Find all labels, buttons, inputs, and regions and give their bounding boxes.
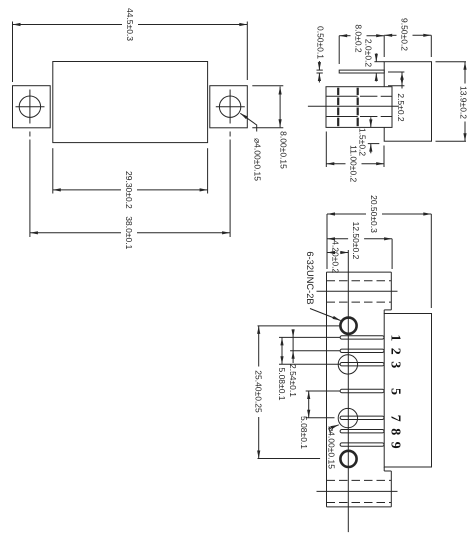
svg-text:9.50±0.2: 9.50±0.2 [400, 18, 410, 51]
dimension 5.08±0.1 pins 1-3 [281, 337, 283, 364]
dimension 4.20±0.2 edge to hole centerline [327, 252, 331, 254]
pin block horizontal centerline [308, 105, 398, 107]
top view: module body outline [53, 62, 208, 143]
label ∅4.00±0.15 ear hole with leader [240, 113, 256, 131]
svg-text:12.50±0.2: 12.50±0.2 [351, 222, 361, 260]
dimension 2.5±0.2 flange to pins [388, 71, 404, 73]
top ear hole centerline [317, 290, 398, 292]
dimension 8.00±0.15 ear height [252, 85, 283, 87]
bottom ear hole hidden lines [327, 479, 392, 481]
svg-text:6-32UNC-2B: 6-32UNC-2B [305, 251, 315, 304]
dimension 13.9±0.2 case height [436, 61, 467, 63]
dimension 2.54±0.1 pin pitch [292, 329, 294, 337]
pin 1 [340, 336, 384, 339]
svg-text:8: 8 [388, 428, 403, 435]
dimension 9.50±0.2 case width [430, 35, 432, 57]
threaded hole 6-32UNC-2B bottom [340, 451, 356, 467]
top view: right mounting ear [210, 86, 248, 128]
right hole crosshair centerlines [216, 106, 245, 108]
pin 9 [340, 443, 384, 446]
dimension 8.0±0.2 flange length [338, 36, 340, 64]
svg-text:1: 1 [388, 334, 403, 341]
bottom view: case outline [384, 314, 431, 468]
svg-text:5: 5 [388, 388, 403, 395]
svg-text:29.30±0.2: 29.30±0.2 [124, 171, 134, 209]
svg-text:7: 7 [388, 415, 403, 422]
svg-text:2: 2 [388, 348, 403, 355]
side view: case body outline [384, 62, 431, 142]
dimension 20.50±0.3 overall width [326, 214, 328, 269]
side view: mounting flange 0.5 thick [339, 70, 384, 73]
pin 7 [340, 416, 384, 419]
left ear mounting hole [19, 96, 40, 117]
top ear hole hidden lines [327, 280, 392, 282]
svg-text:⌀4.00±0.15: ⌀4.00±0.15 [253, 138, 263, 181]
label ∅4.00±0.15 plain hole with leader [329, 425, 339, 434]
dimension 25.40±0.25 threaded hole spacing [258, 325, 341, 327]
svg-text:2.0±0.2: 2.0±0.2 [364, 39, 374, 68]
right ear mounting hole [219, 96, 240, 117]
plain hole ∅4 lower [338, 408, 357, 427]
plain hole ∅4 upper [338, 355, 357, 374]
svg-text:3: 3 [388, 361, 403, 368]
dimension 2.0±0.2 flange offset from top [374, 61, 384, 63]
svg-text:8.0±0.2: 8.0±0.2 [354, 24, 364, 53]
svg-text:5.08±0.1: 5.08±0.1 [277, 367, 287, 400]
svg-text:25.40±0.25: 25.40±0.25 [254, 370, 264, 413]
threaded hole 6-32UNC-2B top [340, 318, 356, 334]
dimension 44.5±0.3 overall length [12, 22, 14, 83]
vertical centerline through holes [347, 250, 349, 532]
svg-text:44.5±0.3: 44.5±0.3 [125, 8, 135, 41]
top view: left mounting ear [13, 86, 51, 128]
dimension 29.30±0.2 body length [52, 148, 54, 193]
pin block pin section dashes [337, 88, 339, 95]
svg-text:11.00±0.2: 11.00±0.2 [349, 145, 359, 182]
dimension 38.0±0.1 hole spacing [29, 140, 31, 238]
svg-text:13.9±0.2: 13.9±0.2 [458, 86, 468, 119]
side view: pin block [326, 87, 392, 128]
svg-text:2.5±0.2: 2.5±0.2 [396, 93, 406, 122]
dimension 1.5±0.2 pin thickness [370, 117, 372, 127]
svg-text:8.00±0.15: 8.00±0.15 [279, 131, 289, 169]
pin 8 [340, 430, 384, 433]
left hole crosshair centerlines [16, 106, 45, 108]
svg-text:38.0±0.1: 38.0±0.1 [124, 216, 134, 249]
dimension 5.08±0.1 pins 5-7 [308, 391, 310, 418]
svg-text:0.50±0.1: 0.50±0.1 [315, 26, 325, 59]
svg-text:2.54±0.1: 2.54±0.1 [288, 364, 298, 397]
svg-text:5.08±0.1: 5.08±0.1 [299, 416, 309, 449]
dimension 0.50±0.1 flange thickness [317, 69, 323, 71]
svg-text:20.50±0.3: 20.50±0.3 [369, 195, 379, 233]
pin 2 [340, 349, 384, 352]
pin 5 [340, 389, 384, 392]
svg-text:9: 9 [388, 442, 403, 449]
bottom view: flange outline [326, 272, 328, 507]
svg-text:4.20±0.2: 4.20±0.2 [331, 240, 341, 273]
pin 3 [340, 363, 384, 366]
dimension 12.50±0.2 flange width [391, 239, 393, 269]
dimension 11.00±0.2 pin length [325, 132, 327, 168]
svg-text:⌀4.00±0.15: ⌀4.00±0.15 [327, 426, 337, 469]
pin block row lines [326, 95, 358, 97]
bottom ear hole centerline [317, 490, 398, 492]
pin extension lines [279, 336, 340, 338]
